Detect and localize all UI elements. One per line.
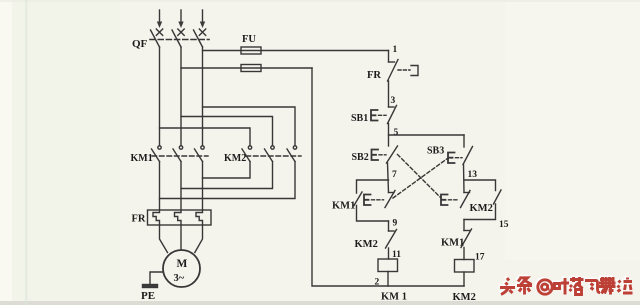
QF linkage dashed bbox=[150, 39, 209, 41]
svg-text:FR: FR bbox=[132, 214, 146, 225]
wire KM1 pole3 output down bbox=[202, 162, 204, 211]
wire 7 segment bbox=[388, 163, 389, 193]
motor M circle bbox=[163, 250, 200, 287]
wire phase L2 vertical bbox=[180, 47, 182, 146]
fuse FU bottom bbox=[241, 65, 261, 72]
supply arrow L1 bbox=[157, 10, 162, 28]
svg-text:9: 9 bbox=[393, 219, 398, 229]
wire right branch top bbox=[463, 135, 465, 147]
wire coil KM2 to rail bbox=[463, 272, 465, 286]
svg-text:11: 11 bbox=[392, 250, 401, 260]
wire crossover top L3 to KM2 pole3 bbox=[203, 107, 296, 146]
svg-text:KM2: KM2 bbox=[453, 292, 476, 303]
wire phase L3 vertical bbox=[202, 47, 204, 146]
wire node5 branch bbox=[389, 134, 465, 136]
svg-text:KM2: KM2 bbox=[355, 239, 378, 250]
thermal relay FR box bbox=[148, 210, 212, 225]
supply arrow L3 bbox=[200, 10, 205, 28]
wire fuse2 feed bbox=[181, 67, 312, 69]
linkage dashed SB2 to right NC bbox=[398, 155, 442, 199]
svg-text:SB3: SB3 bbox=[427, 146, 444, 157]
FR heater 1 bbox=[153, 210, 160, 225]
svg-text:M: M bbox=[177, 258, 188, 270]
coil KM2 bbox=[455, 260, 475, 273]
svg-text:KM1: KM1 bbox=[332, 201, 355, 212]
aux contact KM2 NO branch bbox=[464, 180, 501, 220]
faint scan streak bbox=[25, 0, 28, 305]
ground PE bbox=[150, 272, 163, 285]
FR heater 2 bbox=[175, 210, 182, 225]
svg-text:KM1: KM1 bbox=[131, 153, 153, 164]
breaker QF pole 1 bbox=[151, 29, 163, 47]
wire KM1 pole2 output down bbox=[180, 162, 182, 211]
wire crossover top L1 to KM2 pole1 bbox=[160, 128, 251, 146]
interlock contact KM2 NC bbox=[386, 230, 397, 249]
coil KM1 bbox=[378, 259, 398, 272]
button SB3 NO bbox=[448, 147, 473, 165]
wire motor lead V bbox=[180, 225, 182, 250]
wire 11 bbox=[388, 248, 390, 259]
breaker QF pole 2 bbox=[172, 29, 184, 47]
wire coil KM1 to rail bbox=[387, 272, 389, 287]
wire 1-3 bbox=[388, 81, 390, 107]
wire node1 drop bbox=[388, 51, 390, 63]
wire motor lead W bbox=[195, 225, 203, 253]
svg-text:QF: QF bbox=[132, 38, 148, 50]
supply arrow L2 bbox=[178, 10, 183, 28]
wire 17 bbox=[463, 248, 465, 260]
interlock contact KM1 NC bbox=[461, 229, 472, 248]
contactor KM1 pole 2 bbox=[173, 146, 183, 162]
wire crossover bottom KM2 pole1 to L3 bus bbox=[203, 162, 251, 179]
contactor KM1 pole 1 bbox=[152, 146, 162, 162]
svg-text:7: 7 bbox=[392, 170, 397, 180]
wire crossover top L2 to KM2 pole2 bbox=[181, 117, 273, 146]
relay contact FR NC bbox=[388, 60, 419, 82]
contactor KM2 pole 2 bbox=[265, 146, 275, 162]
svg-text:FR: FR bbox=[367, 70, 381, 81]
svg-text:KM2: KM2 bbox=[470, 203, 493, 214]
aux contact KM1 NO branch bbox=[354, 180, 389, 221]
wire crossover bottom KM2 pole3 to L1 bus bbox=[160, 162, 296, 199]
wire control left rail bbox=[312, 68, 464, 286]
FR heater 3 bbox=[196, 210, 203, 225]
svg-text:1: 1 bbox=[393, 45, 398, 55]
svg-text:KM2: KM2 bbox=[224, 153, 246, 164]
wire motor lead U bbox=[160, 225, 168, 253]
svg-text:FU: FU bbox=[242, 34, 256, 45]
svg-text:5: 5 bbox=[394, 128, 399, 138]
contactor KM2 pole 3 bbox=[287, 146, 297, 162]
svg-text:2: 2 bbox=[375, 278, 380, 288]
wire phase L1 vertical bbox=[159, 47, 161, 146]
wire fuse1 feed bbox=[203, 50, 389, 52]
contactor KM1 pole 3 bbox=[195, 146, 205, 162]
button SB2 NO bbox=[372, 146, 398, 163]
svg-text:SB2: SB2 bbox=[352, 152, 369, 163]
wire KM1 pole1 output down bbox=[159, 162, 161, 211]
svg-text:17: 17 bbox=[475, 253, 485, 263]
button contact SB3 NC (left branch) bbox=[364, 191, 395, 208]
wire 3-5 bbox=[388, 124, 390, 147]
wire 13 segment bbox=[463, 165, 466, 193]
svg-text:15: 15 bbox=[499, 220, 509, 230]
button SB1 NC bbox=[371, 106, 397, 124]
wire 9-down bbox=[388, 221, 390, 231]
svg-text:3~: 3~ bbox=[174, 273, 185, 284]
wire 15-down bbox=[463, 220, 465, 231]
contactor KM2 pole 1 bbox=[242, 146, 252, 162]
svg-text:PE: PE bbox=[141, 290, 155, 302]
fuse FU top bbox=[241, 47, 261, 54]
KM2 linkage dashed bbox=[246, 155, 301, 157]
button contact SB2 NC (right branch) bbox=[441, 191, 470, 208]
svg-text:13: 13 bbox=[468, 170, 478, 180]
wire crossover bottom KM2 pole2 to L2 bus bbox=[181, 162, 273, 189]
svg-text:KM 1: KM 1 bbox=[381, 292, 407, 303]
breaker QF pole 3 bbox=[194, 29, 206, 47]
KM1 linkage dashed bbox=[152, 155, 208, 157]
svg-text:3: 3 bbox=[391, 96, 396, 106]
svg-text:SB1: SB1 bbox=[351, 113, 368, 124]
linkage dashed SB3 to left NC bbox=[393, 159, 447, 198]
svg-text:KM1: KM1 bbox=[441, 238, 464, 249]
